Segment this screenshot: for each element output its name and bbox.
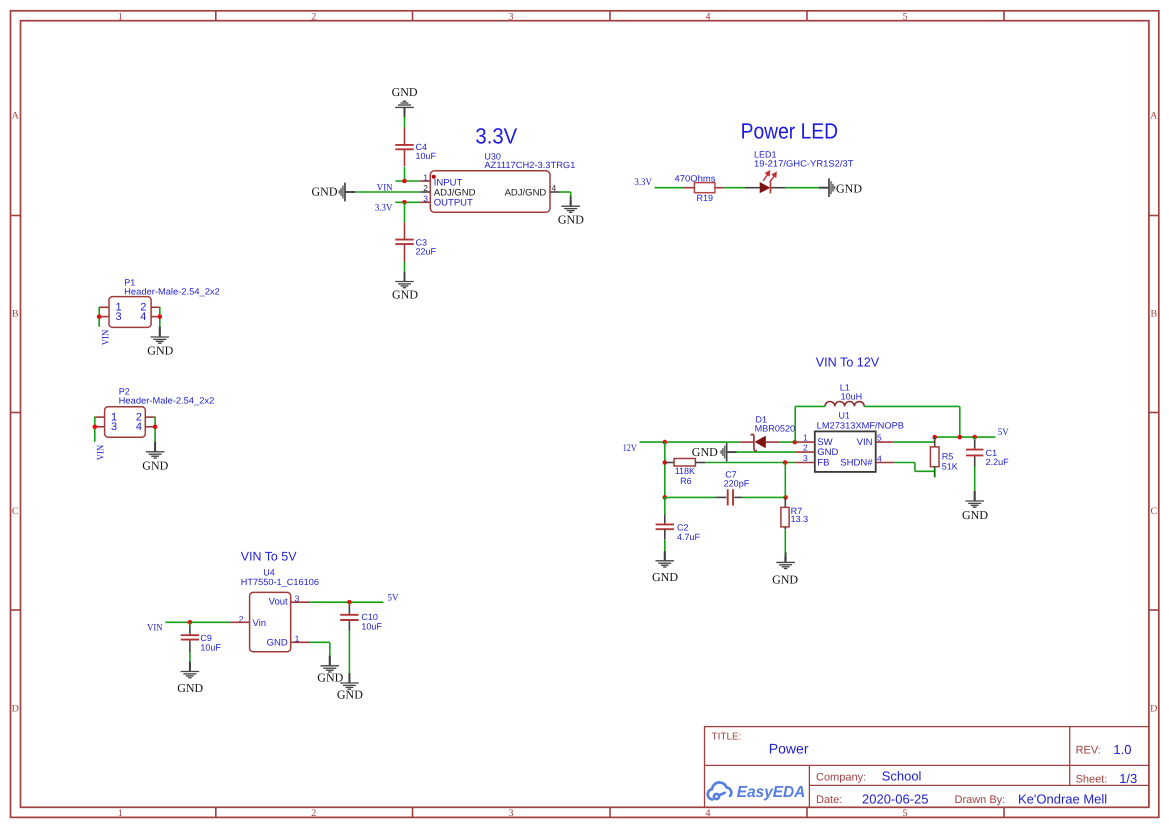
svg-text:2.2uF: 2.2uF — [986, 457, 1010, 467]
svg-text:VIN: VIN — [96, 445, 107, 460]
svg-text:3: 3 — [111, 421, 117, 433]
svg-text:4: 4 — [706, 11, 711, 22]
svg-text:U1: U1 — [839, 410, 851, 420]
svg-text:Drawn By:: Drawn By: — [955, 794, 1006, 806]
svg-text:VIN: VIN — [377, 183, 393, 194]
svg-text:2020-06-25: 2020-06-25 — [862, 791, 929, 806]
svg-text:VIN To 12V: VIN To 12V — [816, 355, 880, 370]
svg-text:19-217/GHC-YR1S2/3T: 19-217/GHC-YR1S2/3T — [754, 158, 854, 168]
svg-text:D: D — [1150, 704, 1157, 715]
svg-text:10uF: 10uF — [361, 622, 382, 632]
svg-text:10uH: 10uH — [841, 392, 863, 402]
svg-text:Date:: Date: — [816, 794, 842, 806]
svg-text:Ke'Ondrae Mell: Ke'Ondrae Mell — [1018, 792, 1107, 807]
svg-text:12V: 12V — [623, 443, 638, 454]
svg-text:3.3V: 3.3V — [475, 123, 517, 148]
svg-text:220pF: 220pF — [724, 479, 750, 489]
svg-text:2: 2 — [423, 183, 428, 193]
svg-text:1.0: 1.0 — [1113, 742, 1131, 757]
svg-text:HT7550-1_C16106: HT7550-1_C16106 — [241, 577, 319, 587]
svg-text:4: 4 — [140, 311, 146, 323]
svg-text:OUTPUT: OUTPUT — [434, 198, 473, 209]
svg-text:1: 1 — [118, 808, 123, 819]
svg-text:GND: GND — [392, 85, 418, 99]
svg-text:SHDN#: SHDN# — [840, 457, 873, 468]
svg-text:VIN: VIN — [100, 330, 111, 345]
svg-text:1: 1 — [118, 11, 123, 22]
svg-text:GND: GND — [962, 508, 988, 522]
svg-text:51K: 51K — [942, 461, 958, 471]
svg-text:Vout: Vout — [269, 597, 288, 608]
svg-text:GND: GND — [392, 288, 418, 302]
svg-text:1: 1 — [803, 432, 808, 442]
svg-text:R6: R6 — [680, 476, 692, 486]
svg-text:GND: GND — [337, 687, 363, 701]
svg-text:LM27313XMF/NOPB: LM27313XMF/NOPB — [817, 421, 904, 431]
svg-text:EasyEDA: EasyEDA — [737, 784, 806, 801]
svg-text:B: B — [12, 309, 19, 320]
svg-text:1/3: 1/3 — [1119, 771, 1137, 786]
svg-text:13.3: 13.3 — [791, 514, 809, 524]
svg-text:Power LED: Power LED — [741, 118, 839, 143]
svg-text:ADJ/GND: ADJ/GND — [505, 188, 547, 199]
svg-text:10uF: 10uF — [416, 151, 437, 161]
svg-text:GND: GND — [836, 181, 862, 195]
svg-text:D: D — [12, 704, 19, 715]
svg-text:4: 4 — [136, 421, 142, 433]
svg-text:GND: GND — [652, 570, 678, 584]
svg-text:A: A — [1150, 111, 1158, 122]
svg-text:1: 1 — [423, 172, 428, 182]
svg-text:Header-Male-2.54_2x2: Header-Male-2.54_2x2 — [119, 395, 215, 405]
svg-text:22uF: 22uF — [416, 247, 437, 257]
svg-text:2: 2 — [311, 808, 316, 819]
svg-text:MBR0520: MBR0520 — [755, 423, 796, 433]
svg-text:5V: 5V — [998, 427, 1010, 438]
svg-text:GND: GND — [142, 458, 168, 472]
svg-text:3: 3 — [116, 311, 122, 323]
svg-text:GND: GND — [267, 638, 288, 649]
svg-text:TITLE:: TITLE: — [712, 732, 742, 743]
svg-text:VIN: VIN — [147, 622, 162, 633]
svg-text:5: 5 — [903, 11, 908, 22]
svg-text:C: C — [12, 506, 19, 517]
svg-text:4.7uF: 4.7uF — [677, 532, 701, 542]
svg-text:School: School — [882, 768, 922, 783]
svg-text:VIN: VIN — [857, 437, 873, 448]
svg-text:U4: U4 — [263, 567, 275, 577]
svg-text:3: 3 — [423, 193, 428, 203]
svg-text:3.3V: 3.3V — [375, 202, 393, 213]
svg-text:GND: GND — [692, 445, 718, 459]
svg-text:Header-Male-2.54_2x2: Header-Male-2.54_2x2 — [124, 286, 220, 296]
svg-text:Vin: Vin — [253, 618, 267, 629]
svg-text:C: C — [1150, 506, 1157, 517]
svg-text:5V: 5V — [388, 593, 400, 604]
svg-text:A: A — [12, 111, 20, 122]
svg-text:GND: GND — [558, 212, 584, 226]
svg-text:VIN To 5V: VIN To 5V — [241, 550, 297, 564]
svg-text:Power: Power — [769, 741, 809, 757]
svg-text:AZ1117CH2-3.3TRG1: AZ1117CH2-3.3TRG1 — [484, 160, 575, 170]
svg-text:GND: GND — [772, 573, 798, 587]
svg-text:FB: FB — [817, 457, 829, 468]
svg-text:B: B — [1150, 309, 1157, 320]
svg-text:REV:: REV: — [1076, 744, 1101, 756]
svg-text:GND: GND — [312, 185, 338, 199]
svg-text:3: 3 — [509, 808, 514, 819]
svg-text:2: 2 — [803, 443, 808, 453]
svg-text:GND: GND — [317, 671, 343, 685]
svg-text:GND: GND — [177, 681, 203, 695]
svg-text:5: 5 — [877, 432, 882, 442]
svg-text:R19: R19 — [697, 193, 714, 203]
svg-text:3.3V: 3.3V — [634, 177, 652, 188]
svg-text:470Ohms: 470Ohms — [675, 174, 717, 184]
svg-text:Company:: Company: — [816, 772, 866, 784]
svg-text:5: 5 — [903, 808, 908, 819]
svg-text:Sheet:: Sheet: — [1076, 774, 1108, 786]
svg-text:2: 2 — [311, 11, 316, 22]
svg-text:10uF: 10uF — [200, 642, 221, 652]
svg-text:118K: 118K — [675, 466, 695, 476]
svg-text:3: 3 — [509, 11, 514, 22]
svg-text:C2: C2 — [677, 523, 689, 533]
svg-text:GND: GND — [147, 343, 173, 357]
svg-text:R5: R5 — [942, 451, 954, 461]
svg-text:4: 4 — [706, 808, 711, 819]
